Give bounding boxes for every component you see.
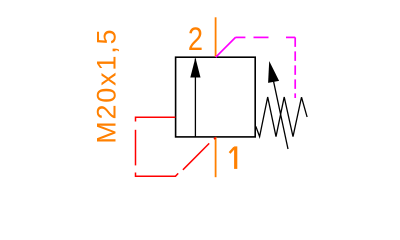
svg-text:M20x1,5: M20x1,5 (91, 28, 121, 144)
svg-text:2: 2 (188, 22, 203, 58)
